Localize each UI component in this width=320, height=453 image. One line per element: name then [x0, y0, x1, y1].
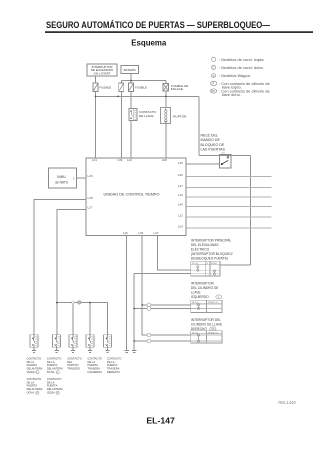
wire bus y96.4 — [96, 95, 200, 97]
wire connector1 to grid2 — [151, 304, 191, 306]
svg-text:DE LLAVE: DE LLAVE — [139, 114, 154, 118]
svg-text:DESBLOQUEO PUERTA): DESBLOQUEO PUERTA) — [191, 256, 228, 260]
svg-text:CONTACTO: CONTACTO — [67, 356, 82, 360]
svg-text:DEL CILINDRO DE: DEL CILINDRO DE — [191, 286, 219, 290]
wire battery drop right x250 — [249, 155, 251, 265]
label door switch S4 — [88, 356, 103, 374]
svg-text:INTERRUPTOR PRINCIPAL: INTERRUPTOR PRINCIPAL — [191, 238, 232, 242]
wire x134 down — [133, 274, 135, 351]
wire L29 down — [142, 236, 151, 335]
grid key cylinder left — [191, 300, 222, 312]
wire L27 left — [57, 209, 86, 334]
svg-text:: Modelos Wagon: : Modelos Wagon — [219, 73, 250, 78]
svg-text:BLOQ.: BLOQ. — [192, 263, 199, 265]
svg-text:R: R — [57, 393, 59, 395]
svg-text:de NATS: de NATS — [55, 180, 68, 184]
fuse B — [119, 83, 124, 92]
svg-text:L25: L25 — [178, 161, 183, 165]
grid window lock switch — [191, 261, 220, 276]
fusible link — [163, 84, 169, 92]
svg-text:L28: L28 — [88, 196, 93, 200]
svg-text:DE LA: DE LA — [47, 360, 55, 364]
svg-text:DESBLOQ.: DESBLOQ. — [208, 332, 219, 334]
svg-text:DE LA: DE LA — [27, 380, 35, 384]
svg-text:PUERTA: PUERTA — [107, 363, 118, 367]
svg-text:DELANTERA: DELANTERA — [47, 367, 63, 371]
svg-text:FUSIBLE: FUSIBLE — [135, 85, 147, 89]
key switch CONTACTO DE LLAVE — [129, 108, 157, 120]
svg-text:L47: L47 — [178, 184, 183, 188]
wire key switch to L22 — [130, 121, 132, 158]
svg-text:Esquema: Esquema — [131, 39, 167, 48]
svg-text:DE LA: DE LA — [88, 360, 96, 364]
svg-text:L06: L06 — [178, 173, 183, 177]
svg-text:DESB.: DESB. — [211, 263, 218, 265]
svg-text:PUERTA: PUERTA — [88, 363, 99, 367]
svg-text:BATERÍA: BATERÍA — [124, 68, 136, 72]
svg-text:TRASERA: TRASERA — [88, 367, 101, 371]
svg-text:EL-147: EL-147 — [146, 416, 175, 426]
junction x134 tap2 — [133, 340, 135, 342]
svg-text:DELANTERA: DELANTERA — [27, 367, 43, 371]
svg-text:PUERTA: PUERTA — [47, 363, 58, 367]
ground S1 — [32, 351, 36, 353]
svg-text:CONTACTO: CONTACTO — [88, 356, 103, 360]
svg-text:TRASERA: TRASERA — [107, 367, 120, 371]
ground S5 — [105, 351, 109, 353]
wire L01 drop — [95, 96, 97, 157]
wire L28 left — [34, 200, 108, 335]
pin labels left — [88, 174, 93, 210]
svg-text:L: L — [57, 372, 59, 374]
svg-text:IZQUIERDA: IZQUIERDA — [88, 370, 103, 374]
junction bus mid — [117, 96, 119, 98]
svg-text:RELÉ DEL: RELÉ DEL — [201, 133, 218, 138]
svg-text:SEGURO AUTOMÁTICO DE PUERTAS —: SEGURO AUTOMÁTICO DE PUERTAS — SUPERBLOQ… — [46, 19, 270, 31]
wire bus to fuse B — [120, 81, 122, 84]
junction L29 tap — [141, 304, 143, 306]
wire S4 drop — [89, 303, 91, 335]
svg-text:ENLACE: ENLACE — [171, 87, 183, 91]
svg-text:IZQDA.: IZQDA. — [47, 391, 56, 395]
svg-text:L01: L01 — [92, 158, 97, 162]
svg-text:LLAVE: LLAVE — [191, 290, 201, 294]
svg-text:L29: L29 — [138, 231, 143, 235]
svg-text:UNIDAD DE CONTROL TIEMPO: UNIDAD DE CONTROL TIEMPO — [104, 192, 160, 196]
ground S4 — [88, 351, 92, 353]
svg-text:PUERTA: PUERTA — [27, 363, 38, 367]
wire S5 drop — [107, 303, 109, 335]
door switch S2 — [53, 335, 61, 351]
wire L09 drop from fuse B — [120, 92, 122, 158]
ground S2 — [54, 351, 58, 353]
svg-text:L22: L22 — [127, 158, 132, 162]
wire connector2 to grid3 — [151, 334, 191, 336]
label door switch S2 — [47, 356, 63, 374]
grid key cylinder right — [191, 331, 222, 343]
svg-text:L03: L03 — [178, 224, 183, 228]
wire relay top bus — [186, 155, 250, 265]
label FUSIBLE DE ENLACE — [171, 84, 189, 91]
svg-text:BLOQUEO DE: BLOQUEO DE — [201, 143, 225, 147]
wires: top feeds — [96, 74, 166, 84]
svg-text:DEL: DEL — [67, 360, 73, 364]
junction battery bus — [130, 80, 132, 82]
connector C2 — [147, 333, 151, 343]
ignition switch box — [87, 64, 117, 76]
svg-text:(INTERRUPTOR BLOQUEO/: (INTERRUPTOR BLOQUEO/ — [191, 252, 233, 256]
caption window main switch — [191, 238, 233, 260]
svg-text:L09: L09 — [117, 158, 122, 162]
svg-text:TRASERO: TRASERO — [67, 367, 80, 371]
svg-text:: Modelos de cond. dcha.: : Modelos de cond. dcha. — [219, 65, 264, 70]
svg-text:llave dcho.: llave dcho. — [222, 92, 241, 97]
wire to grid1 top right — [220, 264, 251, 266]
svg-text:INTERRUPTOR: INTERRUPTOR — [191, 281, 215, 285]
wire battery down — [130, 74, 132, 83]
svg-text:D: D — [213, 66, 215, 70]
wire ignition to fuse A — [95, 76, 97, 83]
svg-text:CILINDRO DE LLAVE: CILINDRO DE LLAVE — [191, 322, 222, 326]
svg-text:L44: L44 — [178, 203, 183, 207]
svg-text:DE LA: DE LA — [27, 360, 35, 364]
svg-text:DELANTERA: DELANTERA — [47, 387, 63, 391]
title SEGURO AUTOMATICO — [45, 19, 313, 33]
ground S3 — [71, 351, 75, 353]
svg-text:L26: L26 — [88, 174, 93, 178]
svg-text:L27: L27 — [88, 206, 93, 210]
wire L25 to relay — [186, 163, 220, 165]
door switch S4 — [86, 335, 94, 351]
wire L37 to grid1 — [158, 236, 191, 271]
svg-text:: Modelos de cond. izqda.: : Modelos de cond. izqda. — [219, 57, 265, 62]
wire IMMU to L26 — [77, 177, 87, 179]
svg-text:RUPTOR: RUPTOR — [173, 115, 187, 119]
label door switch S3 — [67, 356, 82, 370]
IMMU box — [49, 168, 77, 188]
caption key cylinder right — [191, 318, 222, 331]
svg-text:PUERTA: PUERTA — [47, 384, 58, 388]
fuse A — [93, 83, 98, 92]
wire bus right drop x199 — [198, 96, 200, 155]
svg-text:CONTACTO: CONTACTO — [107, 356, 122, 360]
legend — [210, 57, 270, 97]
svg-text:DELANTERA: DELANTERA — [27, 387, 43, 391]
svg-text:CONTACTO: CONTACTO — [27, 356, 42, 360]
wire battery bus y80.5 — [121, 80, 166, 82]
connector door bus S3 — [72, 301, 75, 304]
svg-text:R: R — [37, 393, 39, 395]
svg-text:R: R — [212, 82, 214, 86]
control unit box UNIDAD DE CONTROL TIEMPO — [86, 158, 186, 236]
svg-text:CONTACTO: CONTACTO — [47, 356, 62, 360]
svg-text:CONTACTO: CONTACTO — [47, 377, 62, 381]
wire x134 tap connector1 — [134, 308, 151, 310]
connector C1 — [147, 303, 151, 310]
svg-text:IMMU: IMMU — [57, 175, 66, 179]
label alt door switch B2 — [47, 377, 63, 395]
svg-text:L37: L37 — [154, 231, 159, 235]
door switch S1 — [30, 335, 38, 351]
battery box — [121, 65, 138, 73]
svg-text:CONTACTO: CONTACTO — [27, 377, 42, 381]
wire L29 tap to connector1 — [142, 304, 151, 306]
wire x134 tap connector2 — [134, 340, 151, 342]
junction door bus S4 — [89, 302, 91, 304]
junction link bus — [165, 96, 167, 98]
svg-text:L: L — [37, 372, 39, 374]
svg-text:RD: RD — [211, 89, 215, 93]
pin labels right — [178, 161, 183, 229]
svg-text:ELÉCTRICO: ELÉCTRICO — [191, 246, 210, 251]
connector on door bus — [77, 301, 81, 305]
svg-text:IZQDA.: IZQDA. — [27, 370, 36, 374]
relay caption RELE DEL MANDO — [201, 133, 226, 152]
junction door bus S2 — [56, 302, 58, 304]
svg-text:DE LA: DE LA — [47, 380, 55, 384]
svg-text:PUERTA: PUERTA — [27, 384, 38, 388]
svg-text:DEL ELEVALUNAS: DEL ELEVALUNAS — [191, 243, 219, 247]
wire L16 down — [127, 236, 191, 351]
svg-text:DCHA.: DCHA. — [27, 391, 35, 395]
junction fuse A — [95, 96, 97, 98]
svg-text:DCHA.: DCHA. — [47, 370, 55, 374]
wire link to ruptor — [165, 91, 167, 108]
label door switch S5 — [107, 356, 122, 374]
svg-text:INTERRUPTOR DEL: INTERRUPTOR DEL — [191, 318, 221, 322]
svg-text:REL1440: REL1440 — [278, 400, 296, 405]
svg-text:L10: L10 — [178, 193, 183, 197]
wire fuse A to bus y96.4 — [96, 91, 200, 158]
right wires to other sheets — [186, 177, 272, 229]
wire S3 drop — [72, 303, 74, 335]
svg-text:BLOQ.: BLOQ. — [192, 302, 199, 304]
pin labels top — [92, 158, 167, 162]
ground L16 — [125, 351, 129, 353]
svg-text:L: L — [218, 297, 220, 299]
svg-text:DESBLOQ.: DESBLOQ. — [208, 302, 219, 304]
ground x134 — [132, 351, 136, 353]
wire ruptor to L08 — [165, 124, 167, 158]
wire grid1 row3 — [134, 273, 191, 275]
label alt door switch B1 — [27, 377, 43, 395]
svg-text:DE LA: DE LA — [107, 360, 115, 364]
label door switch S1 — [27, 356, 43, 374]
wire bus to fusible link — [165, 81, 167, 84]
svg-text:ON o START: ON o START — [94, 71, 111, 75]
svg-text:FUSIBLE: FUSIBLE — [100, 85, 112, 89]
svg-text:L08: L08 — [162, 158, 167, 162]
caption key cylinder left — [191, 281, 219, 299]
wire door bus y302 — [57, 302, 108, 304]
door switch S5 — [104, 335, 112, 351]
svg-text:L16: L16 — [123, 231, 128, 235]
fuse C — [129, 83, 134, 92]
door switch S3 — [69, 335, 77, 351]
pin labels bottom — [123, 231, 159, 235]
svg-text:IZQUIERDO: IZQUIERDO — [191, 295, 209, 299]
ruptor (chime) — [160, 108, 187, 124]
relay box — [220, 155, 231, 168]
svg-text:LAS PUERTAS: LAS PUERTAS — [201, 147, 226, 151]
svg-text:DERECHO: DERECHO — [191, 327, 207, 331]
junction x134 tap1 — [133, 308, 135, 310]
svg-text:L12: L12 — [178, 213, 183, 217]
svg-text:MANDO DE: MANDO DE — [201, 138, 221, 142]
wire fuse C to key switch — [130, 92, 132, 109]
svg-text:DERECHA: DERECHA — [107, 370, 120, 374]
